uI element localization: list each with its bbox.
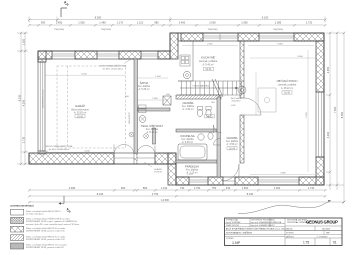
wall koupelna-pradelna (176, 160, 217, 163)
dim row top 1 (29, 19, 325, 21)
window top 1 (52, 54, 75, 56)
svg-text:4.330: 4.330 (326, 131, 330, 138)
door gap BR (223, 180, 235, 182)
svg-text:Ing. arch. VLADIMÍR KREJČÍ: Ing. arch. VLADIMÍR KREJČÍ (251, 224, 275, 227)
svg-text:SUPERTHERM TM 38, pevnost v tl: SUPERTHERM TM 38, pevnost v tlaku P8 (26, 246, 64, 249)
wall pier BR3 (235, 177, 258, 185)
svg-text:8.590: 8.590 (340, 111, 344, 118)
svg-text:VÝKRES:: VÝKRES: (226, 237, 234, 240)
stair break line (212, 79, 223, 97)
column symbol at stair end (238, 86, 246, 94)
wall pier TR2 (238, 33, 259, 41)
kitchen sink (183, 71, 190, 78)
svg-text:02.08: 02.08 (284, 92, 291, 95)
svg-text:5.960: 5.960 (277, 44, 283, 46)
svg-text:VCHOD: VCHOD (154, 172, 162, 174)
svg-text:Stěna z cihelných bloků PŮDNÍ: Stěna z cihelných bloků PŮDNÍ DOPLŇ na m… (26, 218, 70, 221)
window topright 1 (203, 34, 238, 40)
svg-text:900: 900 (121, 186, 126, 190)
interior dim living (248, 45, 314, 47)
window top 2 (97, 54, 119, 56)
svg-text:4.190: 4.190 (21, 99, 25, 106)
wall pier T4 (158, 51, 170, 59)
entrance door arc 2 (137, 146, 155, 155)
svg-text:SUPERTHERM TM 38, pevnost v tl: SUPERTHERM TM 38, pevnost v tlaku P10 (26, 238, 66, 241)
svg-text:2.060: 2.060 (209, 21, 216, 25)
french door bottom-right (189, 180, 208, 182)
svg-text:5.700: 5.700 (81, 73, 87, 75)
svg-text:SUPERTHERM TM 38, pevnost v tl: SUPERTHERM TM 38, pevnost v tlaku P10 (26, 229, 66, 232)
svg-text:1.460: 1.460 (179, 21, 186, 25)
window top 3 (141, 54, 158, 56)
svg-text:1.350: 1.350 (21, 38, 25, 45)
furniture table living room (258, 88, 276, 112)
WC koupelna (208, 133, 213, 140)
window right (large) (316, 92, 324, 157)
svg-text:750(1500): 750(1500) (101, 29, 111, 31)
svg-text:8.280: 8.280 (95, 16, 102, 20)
floor drain 2 (144, 134, 149, 139)
svg-text:900x2020: 900x2020 (232, 101, 242, 103)
bathtub (178, 144, 207, 160)
wall step lower (168, 153, 176, 185)
wall pier T3 (119, 51, 141, 59)
window left wall (38, 62, 45, 151)
svg-text:900: 900 (41, 21, 46, 25)
svg-text:2.861: 2.861 (207, 44, 213, 46)
svg-text:Ing. arch. VLADIMÍRA DOLEŽALOV: Ing. arch. VLADIMÍRA DOLEŽALOVÁ (251, 221, 282, 224)
svg-text:ČKAIT 0601234: ČKAIT 0601234 (226, 224, 239, 227)
svg-text:pevnost v tlaku P8, v sed. mon: pevnost v tlaku P8, v sed. montážní tepe… (26, 223, 79, 226)
wall pier BR1 (176, 177, 189, 185)
wall step upper (170, 33, 178, 59)
dim bottom row 1 right part (176, 189, 325, 191)
legend row 4 swatch (11, 235, 24, 241)
svg-text:1.480: 1.480 (99, 21, 106, 25)
wall top-left band outline (38, 51, 170, 59)
svg-text:8.230: 8.230 (17, 94, 21, 101)
wall right lower corner (316, 157, 324, 185)
svg-text:A: 6.35 m²: A: 6.35 m² (182, 141, 193, 144)
svg-text:2.750: 2.750 (152, 192, 159, 196)
wall bottom-left segment 3 (155, 153, 176, 164)
svg-text:MONTOVANÁ MŘÍŽOVINA: MONTOVANÁ MŘÍŽOVINA (46, 145, 73, 148)
wall pier TR corner (294, 33, 324, 41)
window bottom-right (258, 180, 299, 182)
window topright 2 (259, 36, 294, 38)
svg-text:1.570: 1.570 (187, 174, 193, 176)
floor drain garage (129, 132, 134, 137)
door arc koupelna (214, 125, 222, 133)
wall pier top-left corner (38, 51, 52, 59)
svg-text:HLAVNÍ: HLAVNÍ (154, 168, 162, 171)
legend row 3 swatch (11, 226, 24, 232)
svg-text:2.730: 2.730 (21, 136, 25, 143)
svg-text:VÝLEZ NA PŮDU: VÝLEZ NA PŮDU (192, 85, 210, 88)
legend row 2 swatch (11, 218, 24, 224)
wall pier BR corner (299, 177, 324, 185)
svg-text:A: 25.10 m²: A: 25.10 m² (281, 87, 294, 90)
section marker A bottom (61, 196, 64, 204)
svg-text:Od 225 (0.5x1.5m): Od 225 (0.5x1.5m) (43, 90, 45, 109)
break curve to titleblock (238, 201, 331, 214)
WC fixtures chodba (197, 109, 202, 116)
svg-text:A: 35.63 m²: A: 35.63 m² (74, 112, 87, 115)
svg-text:1.400: 1.400 (155, 76, 161, 78)
svg-text:8.330: 8.330 (247, 192, 254, 196)
wall E main vertical upper (240, 41, 244, 98)
svg-text:A: 9.40 m²: A: 9.40 m² (202, 64, 213, 67)
svg-text:14.500: 14.500 (161, 198, 169, 202)
svg-text:2.950: 2.950 (326, 66, 330, 73)
dim bottom row 3 overall (29, 201, 343, 203)
svg-text:01: 01 (333, 241, 337, 245)
wall pier T2 (75, 51, 97, 59)
svg-text:do 60% učebústálem: do 60% učebústálem (103, 67, 124, 70)
stove (180, 55, 190, 66)
stair arrow (180, 87, 238, 89)
svg-text:2.085: 2.085 (275, 21, 282, 25)
svg-text:750(1500): 750(1500) (273, 29, 283, 31)
wall bottom-right band outline (176, 177, 324, 185)
svg-text:A: 5.35 m²: A: 5.35 m² (138, 88, 149, 91)
dim right verticals (330, 33, 344, 202)
svg-text:440: 440 (226, 186, 231, 190)
wall top-right band outline (178, 33, 324, 41)
staircase treads (178, 81, 242, 95)
dim bottom row 1 left part (29, 189, 176, 191)
svg-text:LEGENDA MATERIÁLŮ: LEGENDA MATERIÁLŮ (10, 205, 34, 208)
section marker A top (61, 3, 69, 17)
svg-text:A: 3.30 m²: A: 3.30 m² (182, 108, 193, 111)
wall E main vertical lower (240, 115, 244, 163)
svg-text:2.625: 2.625 (306, 111, 308, 117)
washer dryer stack tech room (139, 105, 147, 109)
svg-text:1.010: 1.010 (161, 186, 168, 190)
partition stub tech room (153, 128, 156, 144)
svg-text:DATUM: DATUM (286, 227, 293, 230)
right subtable texts (286, 227, 330, 238)
svg-text:1.NP: 1.NP (232, 241, 241, 245)
svg-text:730: 730 (180, 186, 185, 190)
GPS coords text (287, 220, 309, 224)
wall left corner block (38, 51, 46, 62)
kitchen counter (178, 41, 193, 81)
svg-text:1.110: 1.110 (137, 21, 144, 25)
chimney symbol (163, 96, 171, 105)
wall under stair (176, 95, 221, 99)
svg-text:1.000: 1.000 (230, 105, 236, 107)
svg-text:1.480: 1.480 (56, 21, 63, 25)
washbasin (198, 134, 204, 140)
dashed parking outline garage (57, 66, 126, 148)
titleblock frame (225, 218, 343, 246)
svg-text:OBÝVACÍ POKOJ: OBÝVACÍ POKOJ (277, 79, 299, 83)
building outer perimeter heavy line (masonry sides only) (29, 33, 324, 185)
svg-text:3.460: 3.460 (297, 56, 303, 58)
svg-text:1.500: 1.500 (242, 186, 249, 190)
wall chodba-koupelna (176, 129, 217, 132)
wall pier TR1 (181, 33, 203, 41)
wall left bottom block (38, 151, 46, 154)
wall right upper (316, 41, 324, 92)
interior wall A garage-hall (134, 59, 138, 153)
svg-text:GEONUS GROUP: GEONUS GROUP (306, 220, 338, 225)
wall pier BR2 (208, 177, 223, 185)
svg-text:6.150: 6.150 (262, 16, 269, 20)
svg-text:4.990: 4.990 (69, 186, 76, 190)
svg-text:A: 3.56 m²: A: 3.56 m² (226, 143, 237, 146)
interior wall satna-tech (138, 108, 171, 111)
door arc living room (222, 164, 239, 181)
svg-text:1.720: 1.720 (306, 21, 313, 25)
svg-text:900x2020 P: 900x2020 P (129, 112, 131, 124)
svg-text:MĚŘÍTKO: MĚŘÍTKO (286, 235, 295, 238)
svg-text:985: 985 (154, 21, 159, 25)
svg-text:7.590: 7.590 (333, 106, 337, 113)
svg-text:750: 750 (212, 186, 217, 190)
svg-text:750(1500): 750(1500) (208, 29, 218, 31)
svg-text:1.955: 1.955 (78, 21, 85, 25)
titleblock small texts (226, 219, 286, 241)
svg-text:02.03: 02.03 (207, 115, 214, 118)
svg-text:AKCE: NOVÁ PRAHA, RODINNÝ DŮM: AKCE: NOVÁ PRAHA, RODINNÝ DŮM, PRAHA-LYS… (226, 228, 286, 231)
legend row 5 swatch (11, 243, 24, 249)
svg-text:1.865: 1.865 (152, 98, 158, 100)
door gap 2 (137, 157, 155, 159)
door arc chodba-living (244, 98, 261, 115)
svg-text:2.360: 2.360 (274, 186, 281, 190)
svg-text:STUPEŇ: STUPEŇ (286, 231, 294, 234)
svg-text:02.04: 02.04 (229, 147, 236, 150)
svg-text:8.230: 8.230 (97, 192, 104, 196)
boiler symbol tech room (139, 116, 146, 123)
interior dim kitchen (182, 45, 238, 47)
svg-text:Stěna z cihelných bloků HELUZ: Stěna z cihelných bloků HELUZ 38P+D, (26, 210, 62, 213)
svg-text:A: 8.10 m²: A: 8.10 m² (146, 131, 157, 134)
svg-text:1.730: 1.730 (308, 186, 315, 190)
svg-text:SUPERTHERM TM 38 a tepel. výpl: SUPERTHERM TM 38 a tepel. výplněmi th.CL… (26, 220, 78, 223)
legend row 1 swatch (11, 209, 24, 215)
svg-text:Stěna z cihelných bloků HELUZ: Stěna z cihelných bloků HELUZ 20 na malt… (26, 235, 65, 238)
dim bottom row 2 (29, 195, 325, 197)
svg-text:890: 890 (143, 186, 148, 190)
wall D vertical (217, 97, 221, 177)
svg-text:4.100: 4.100 (84, 151, 90, 153)
svg-text:MONTOVANÁ MŘÍŽOVINA: MONTOVANÁ MŘÍŽOVINA (100, 65, 127, 68)
svg-text:NOVOSTAVBA RD v KNĚŽEVSI: NOVOSTAVBA RD v KNĚŽEVSI (226, 231, 252, 234)
svg-text:02.01: 02.01 (206, 68, 213, 71)
wall bottom-left segment 1 (29, 153, 114, 164)
svg-text:1.760: 1.760 (194, 186, 201, 190)
svg-text:Ing. A. VONDRÁK: Ing. A. VONDRÁK (226, 221, 241, 224)
svg-text:KUCHYNĚ: KUCHYNĚ (201, 55, 215, 60)
svg-text:Č. VÝKRESU: Č. VÝKRESU (317, 235, 329, 238)
svg-text:GARÁŽ: GARÁŽ (75, 103, 85, 108)
svg-text:Stěna z cihelných bloků HELUZ: Stěna z cihelných bloků HELUZ 30 na malt… (26, 227, 65, 230)
dim row top 2 (29, 24, 325, 26)
wall A footing pier (134, 153, 137, 164)
svg-text:na maltu zdící pevn.: na maltu zdící pevn. (26, 212, 44, 215)
entrance door arc 1 (114, 145, 134, 155)
svg-text:do 60% učebústálem: do 60% učebústálem (49, 148, 70, 151)
titleblock grid lines (225, 218, 343, 246)
svg-text:750(1500): 750(1500) (54, 29, 64, 31)
svg-text:3.960: 3.960 (280, 173, 286, 175)
svg-text:1.170: 1.170 (117, 21, 124, 25)
entrance door gap (114, 157, 134, 159)
svg-text:1:75: 1:75 (303, 241, 309, 245)
dim left verticals (21, 33, 25, 164)
svg-text:24.6.2015: 24.6.2015 (322, 228, 330, 230)
svg-text:Stěna z cihelných bloků HELUZ: Stěna z cihelných bloků HELUZ 11.5 na ma… (26, 244, 67, 247)
svg-text:1.960: 1.960 (241, 21, 248, 25)
svg-text:AKU nádrž: AKU nádrž (231, 97, 241, 100)
wall bottom-left band outline (29, 153, 168, 164)
